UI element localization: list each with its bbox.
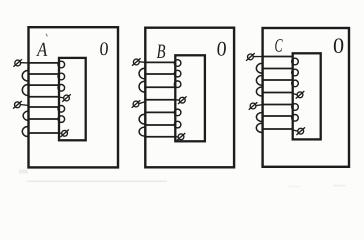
panel B: winding turns (front wires) [144, 62, 176, 136]
label letter B [157, 45, 166, 58]
label 0 (core designation) [217, 42, 226, 56]
panel C: winding terminal (outer middle) [249, 102, 263, 110]
panel C: winding end terminal (window bottom) [293, 127, 305, 135]
panel C: winding terminal (window middle) [293, 91, 305, 99]
panel C: wire loops around outer left edge [256, 63, 262, 132]
panel B: core outline [145, 28, 234, 168]
label letter A [36, 43, 47, 56]
faint specks bottom right [333, 185, 346, 187]
panel B: winding end terminal (window bottom) [175, 133, 185, 141]
panel C: core outline [263, 28, 349, 167]
label 0 (core designation) [100, 42, 108, 55]
panel A: winding terminal (outer middle) [13, 101, 29, 109]
panel A: wire loops around window edge [58, 61, 65, 122]
panel C: core window [293, 53, 321, 139]
label 0 (core designation) [334, 38, 343, 53]
panel A: wire loops around outer left edge [22, 71, 28, 137]
faint scan streak at bottom [27, 181, 167, 183]
panel B: wire loops around outer left edge [139, 68, 145, 136]
panel B: winding terminal (window middle) [175, 96, 186, 104]
panel B: core window [175, 55, 205, 141]
panel A: core outline [29, 27, 119, 167]
panel A: winding end terminal (window bottom) [59, 130, 69, 138]
label letter C [275, 39, 282, 52]
panel A: winding start terminal (outer top) [13, 59, 29, 67]
panel C: wire loops around window edge [292, 58, 299, 121]
panel B: winding terminal (outer middle) [132, 100, 146, 108]
stray mark above A [46, 34, 47, 37]
panel C: winding start terminal (outer top) [246, 53, 263, 61]
panel B: winding start terminal (outer top) [132, 58, 146, 66]
panel A: core window [59, 58, 86, 140]
panel A: winding terminal (window middle) [59, 94, 71, 102]
panel A: winding turns (front wires) [28, 63, 60, 133]
panel C: winding turns (front wires) [262, 57, 294, 130]
panel B: wire loops around window edge [174, 60, 181, 128]
